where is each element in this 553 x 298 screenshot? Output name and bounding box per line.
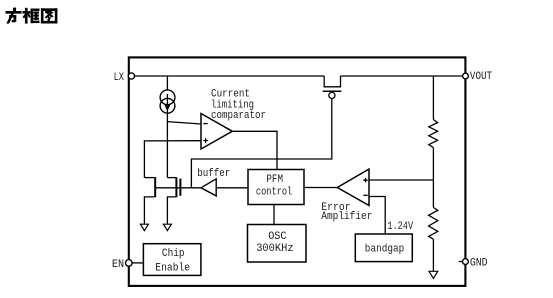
error amp plus sign: [363, 178, 367, 182]
block PFM control: [248, 170, 304, 205]
svg-text:buffer: buffer: [197, 168, 230, 180]
resistor R1: [429, 120, 438, 148]
wire comparator output to PFM control: [232, 131, 277, 169]
pass transistor notch (source-drain channel of pass PMOS): [324, 76, 340, 87]
svg-text:EN: EN: [112, 259, 124, 271]
block OSC 300KHz: [248, 225, 307, 263]
current source I1 lower circle: [160, 98, 175, 113]
wire VOUT rail down to R1: [432, 76, 434, 120]
svg-text:OSC: OSC: [268, 231, 287, 243]
NMOS Q1 drain jog: [144, 177, 154, 179]
wire LX to pass transistor (top rail): [135, 75, 325, 77]
wire error amp inverting input to bandgap: [369, 197, 385, 235]
NMOS Q2 drain jog: [167, 177, 175, 179]
wire R1 to R2 with tap node: [432, 148, 434, 208]
GND internal stub wire: [459, 261, 463, 263]
wire error amp non-inverting input to feedback divider tap: [369, 179, 433, 181]
svg-text:control: control: [256, 186, 292, 198]
wire comparator inverting input: [167, 122, 201, 124]
pin EN circle: [126, 260, 133, 267]
ground symbol under Q2: [163, 224, 171, 230]
svg-text:LX: LX: [114, 72, 125, 84]
wire EN pin to Chip Enable: [132, 262, 143, 264]
comparator plus sign: [203, 138, 208, 143]
wire error amplifier output to PFM control: [304, 187, 337, 189]
svg-text:Amplifier: Amplifier: [321, 211, 372, 223]
pass transistor gate bar: [323, 90, 342, 92]
pin VOUT circle: [463, 73, 469, 79]
pin LX circle: [128, 73, 134, 79]
pass transistor gate bubble: [329, 92, 335, 98]
outer boundary box: [129, 57, 466, 286]
pin GND circle: [463, 259, 469, 265]
block bandgap: [355, 234, 412, 262]
svg-text:Current: Current: [211, 88, 250, 100]
title 方框图 (block diagram): [6, 8, 57, 23]
op-amp U2 error amplifier: [337, 169, 369, 206]
wire PFM control to buffer input: [216, 187, 248, 189]
wire current source through to NMOS drain: [166, 94, 168, 178]
current source I1 upper circle: [160, 90, 175, 105]
wire current-source branch from top rail: [166, 76, 168, 90]
gate wire from buffer to NMOS gates: [156, 187, 202, 189]
svg-text:300KHz: 300KHz: [256, 243, 293, 255]
NMOS Q1 channel bar: [154, 177, 156, 197]
svg-text:Chip: Chip: [162, 248, 185, 260]
wire R2 to ground: [432, 239, 434, 271]
svg-text:Enable: Enable: [155, 263, 190, 275]
ground symbol under R2: [429, 271, 438, 278]
ground symbol under Q1: [140, 224, 148, 230]
svg-text:bandgap: bandgap: [365, 244, 405, 256]
NMOS Q1 source jog: [144, 197, 154, 224]
error amp minus sign: [363, 194, 367, 196]
svg-text:GND: GND: [470, 258, 488, 270]
wire pass-transistor gate down and left to buffer output node: [191, 99, 331, 188]
op-amp U1 current limiting comparator: [201, 114, 232, 150]
NMOS Q2 channel bar: [175, 177, 177, 197]
svg-text:VOUT: VOUT: [470, 71, 493, 83]
NMOS Q2 source jog: [167, 197, 175, 224]
wire pass transistor to VOUT: [341, 75, 463, 77]
wire comparator non-inverting input: [144, 141, 201, 178]
svg-text:1.24V: 1.24V: [387, 221, 413, 233]
svg-text:PFM: PFM: [266, 174, 283, 186]
NMOS Q2 gate bar: [179, 179, 181, 196]
block Chip Enable: [143, 244, 201, 276]
current source arrow: [164, 104, 171, 111]
svg-text:comparator: comparator: [211, 110, 266, 122]
resistor R2: [429, 208, 438, 240]
comparator minus sign: [203, 123, 207, 125]
wire PFM control to OSC: [273, 205, 275, 225]
buffer amplifier triangle: [201, 179, 216, 196]
